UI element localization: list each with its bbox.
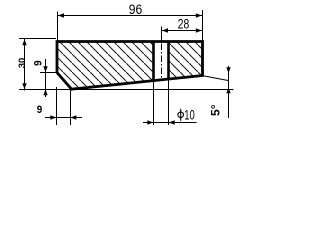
extension line from chamfer bottom down (bottom 9) [70,88,72,125]
extension line left for 96 [57,12,59,42]
dimension line 96 [57,15,203,17]
sloped taper reference line from corner [203,76,229,81]
extension line top for 30 [19,38,56,40]
hole (slot) right edge [167,43,170,80]
dimension line dia 10 [143,122,197,124]
extension line right for 96/28 [202,10,204,41]
svg-text:28: 28 [178,15,190,31]
extension line for left 9 (chamfer top) [40,72,57,74]
long horizontal reference line (30/9 bottom + 5deg base) [19,89,234,91]
svg-text:5°: 5° [209,104,223,116]
svg-text:30: 30 [17,58,28,69]
part outline [57,42,203,90]
extension line from left edge down (bottom 9) [56,87,58,125]
dimension line left 9 [45,59,47,97]
hole (slot) left edge [152,43,155,81]
svg-text:9: 9 [37,104,43,116]
angle dimension line 5deg [228,66,230,118]
extension lines for dia 10 [153,82,155,125]
dimension text dia10 : phi symbol [178,109,184,121]
dimension line bottom 9 [45,117,82,119]
svg-text:10: 10 [184,107,195,123]
dimension line 28 [162,30,203,32]
dimension line 30 [24,39,26,91]
svg-text:96: 96 [129,1,143,17]
hole centerline (dash-dot) [161,27,163,42]
hatched section body of part [57,42,203,90]
svg-text:9: 9 [32,60,44,66]
